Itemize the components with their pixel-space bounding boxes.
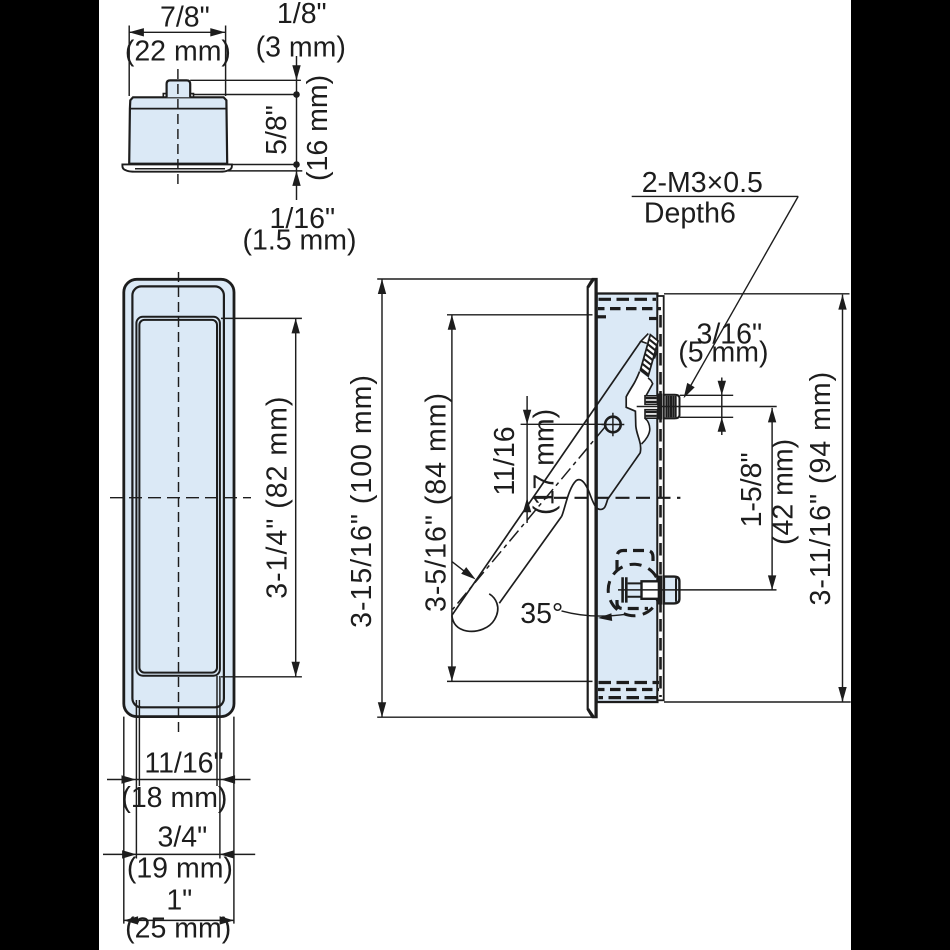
100mm arrows xyxy=(378,279,386,717)
3/16 extension lines xyxy=(680,395,733,417)
dashed slot top xyxy=(617,551,653,572)
plate lines across bolt xyxy=(658,576,662,605)
svg-text:(17 mm): (17 mm) xyxy=(529,409,561,515)
recess inner rect xyxy=(139,320,217,673)
arrow 1/16 up xyxy=(292,171,300,186)
cap tab xyxy=(167,80,191,97)
dim 7/8 arrows xyxy=(129,28,225,36)
84mm leader line xyxy=(452,562,467,574)
82mm extension lines xyxy=(221,318,302,676)
M3 label underline xyxy=(632,195,799,197)
dim 7/8 line xyxy=(129,31,225,33)
svg-text:3-1/4" (82 mm): 3-1/4" (82 mm) xyxy=(261,396,293,599)
svg-text:3-5/16" (84 mm): 3-5/16" (84 mm) xyxy=(420,392,452,612)
42mm dim line xyxy=(771,408,773,590)
nut inner line xyxy=(675,578,677,602)
3/16 arrows xyxy=(718,381,726,432)
top stud assembly xyxy=(637,378,777,436)
82mm arrows xyxy=(292,318,300,676)
cap flange mid line xyxy=(135,168,225,170)
flange inner edge line xyxy=(594,280,596,716)
hidden dashed back line xyxy=(659,315,662,697)
svg-text:(42 mm): (42 mm) xyxy=(767,439,799,545)
42mm arrows xyxy=(768,408,776,590)
svg-text:11/16": 11/16" xyxy=(144,747,223,779)
svg-text:(3 mm): (3 mm) xyxy=(256,32,346,64)
dashed slot bottom xyxy=(617,600,648,609)
dot rim xyxy=(293,91,300,98)
hidden dash top short right xyxy=(649,317,657,320)
svg-text:3-11/16" (94 mm): 3-11/16" (94 mm) xyxy=(805,371,837,606)
knurl stripes xyxy=(666,396,675,418)
svg-text:3-15/16" (100 mm): 3-15/16" (100 mm) xyxy=(346,374,378,628)
hidden dashes top row1 xyxy=(599,298,657,301)
1 inch arrows xyxy=(124,916,234,924)
svg-text:(18 mm): (18 mm) xyxy=(121,782,227,814)
hook loop xyxy=(452,594,498,632)
stud centerline xyxy=(637,406,777,408)
ref line flange bottom xyxy=(228,170,302,172)
svg-text:(25 mm): (25 mm) xyxy=(125,913,231,945)
svg-text:Depth6: Depth6 xyxy=(644,198,736,230)
94mm dim line xyxy=(842,295,844,702)
recess outer rect xyxy=(136,317,220,676)
hatch bar xyxy=(640,335,658,376)
tab base step xyxy=(163,94,193,98)
side horizontal centerline xyxy=(534,497,681,499)
cap rim line xyxy=(130,108,227,110)
84mm leader arrow xyxy=(461,567,476,579)
plate lines across stud xyxy=(658,394,662,420)
svg-text:1/8": 1/8" xyxy=(277,0,327,30)
stud tab upper xyxy=(645,396,657,405)
stud tab stripes xyxy=(646,398,657,416)
82mm dim line xyxy=(295,318,297,676)
17mm extension line xyxy=(521,423,604,425)
bottom bolt assembly xyxy=(608,551,776,616)
hidden dashes bottom row1 xyxy=(599,681,660,684)
white drawing sheet xyxy=(99,0,851,950)
break wave and inner contour xyxy=(562,371,641,516)
cap centerline xyxy=(177,69,179,189)
84mm extension lines xyxy=(447,315,593,682)
pivot circle xyxy=(605,417,621,433)
bolt centerline xyxy=(618,589,777,591)
hidden dashes bottom row2 xyxy=(598,688,659,691)
black side bars redrawn on top xyxy=(0,0,99,950)
hidden dash top short left xyxy=(598,315,607,318)
svg-text:7/8": 7/8" xyxy=(160,1,210,33)
white pocket above stud xyxy=(645,396,657,419)
dashed circle xyxy=(608,564,660,616)
svg-text:5/8": 5/8" xyxy=(261,105,293,155)
svg-text:11/16: 11/16 xyxy=(489,426,521,495)
lever edge line B xyxy=(499,516,561,603)
svg-text:1-5/8": 1-5/8" xyxy=(736,452,768,527)
35 degree arrow xyxy=(598,613,612,621)
3/16 dim line xyxy=(721,378,723,436)
M3 leader line xyxy=(689,196,799,389)
17mm dim line xyxy=(526,396,528,523)
3/4 arrows xyxy=(122,850,234,858)
stud tab lower xyxy=(645,410,657,419)
100mm dim line xyxy=(381,279,383,717)
dim 7/8 extension lines xyxy=(129,26,225,97)
side body pan xyxy=(597,294,658,703)
35 degree arc xyxy=(562,611,628,616)
11/16 dim line xyxy=(107,779,251,781)
hidden dashes bottom row3 xyxy=(599,696,658,699)
svg-text:(22 mm): (22 mm) xyxy=(125,36,231,68)
svg-text:(16 mm): (16 mm) xyxy=(302,75,334,181)
dot flange xyxy=(293,161,300,168)
claw tip white xyxy=(653,348,657,359)
bottom extension lines left xyxy=(124,700,140,924)
cap body xyxy=(129,97,227,163)
ref line tab top xyxy=(190,79,301,81)
latch mechanism xyxy=(452,334,658,632)
ref line flange top xyxy=(232,164,299,166)
ref line rim top xyxy=(193,94,299,96)
front flange xyxy=(588,279,597,717)
nut outside xyxy=(664,577,680,604)
front horizontal centerline xyxy=(110,497,251,499)
front vertical centerline xyxy=(178,272,180,736)
svg-text:3/4": 3/4" xyxy=(158,822,208,854)
84mm dim line xyxy=(451,315,453,682)
outer rounded rect xyxy=(124,279,234,716)
stud knurl body xyxy=(664,395,680,419)
100mm extension lines xyxy=(377,279,594,717)
11/16 arrows xyxy=(122,775,236,783)
claw right contour xyxy=(646,378,653,396)
hidden dashes top row2 xyxy=(598,307,661,310)
pivot cross xyxy=(602,413,625,436)
bottom extension lines right xyxy=(217,676,234,924)
flange tip chamfers xyxy=(588,279,594,717)
claw toe below stud xyxy=(642,418,650,444)
vertical dim column xyxy=(296,56,298,200)
arrow 1/8 down xyxy=(292,65,300,80)
bolt block xyxy=(642,581,660,599)
3/4 dim line xyxy=(103,853,255,855)
svg-text:35°: 35° xyxy=(520,598,563,630)
lever dash-dot axis xyxy=(453,427,606,610)
bolt flange bars xyxy=(623,577,627,602)
notch triangle xyxy=(641,334,649,344)
second rounded rect xyxy=(132,286,224,707)
17mm arrows xyxy=(523,410,531,513)
svg-text:2-M3×0.5: 2-M3×0.5 xyxy=(642,167,763,199)
lever edge line A xyxy=(452,341,641,615)
M3 leader arrow xyxy=(684,383,695,398)
bolt stem xyxy=(628,583,642,596)
closed lever white silhouette fill xyxy=(626,371,653,444)
svg-text:(5 mm): (5 mm) xyxy=(678,337,768,369)
svg-text:(1.5 mm): (1.5 mm) xyxy=(243,225,357,257)
94mm extension lines xyxy=(664,294,851,702)
94mm arrows xyxy=(838,295,846,702)
back plate strip xyxy=(657,296,663,700)
84mm arrows xyxy=(448,315,456,682)
cap flange xyxy=(122,164,231,171)
dimensions right side xyxy=(377,196,851,717)
1 inch dim line xyxy=(124,919,234,921)
svg-text:(19 mm): (19 mm) xyxy=(127,853,233,885)
